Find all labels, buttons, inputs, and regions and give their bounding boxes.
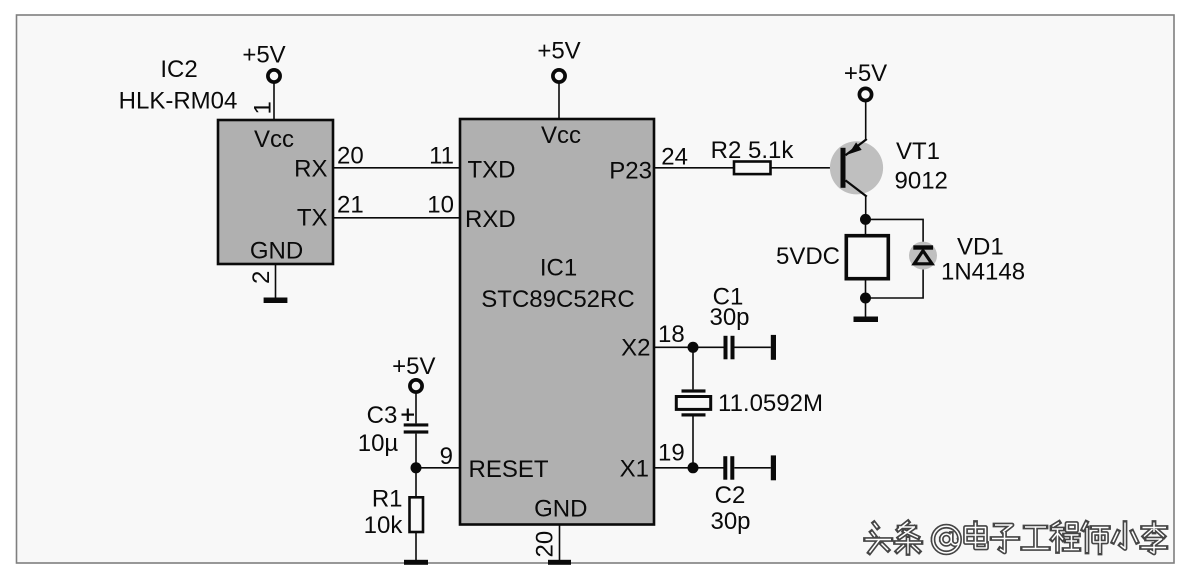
wire +5V to C3 [415,393,417,424]
svg-text:11: 11 [429,143,454,170]
svg-text:21: 21 [337,192,364,219]
svg-text:X2: X2 [621,335,650,362]
wire junction to RESET pin [416,467,460,469]
svg-text:+5V: +5V [242,42,285,69]
svg-text:C2: C2 [715,482,746,509]
wire +5V to IC1 Vcc [558,83,560,119]
wire IC2 RX to IC1 TXD [333,167,460,169]
+5V terminal circle (IC2) [268,70,280,82]
wire junction to ground [865,298,867,317]
transistor VT1 circle [830,141,883,194]
svg-text:19: 19 [658,440,685,467]
watermark 头条 @电子工程师小李 [866,522,1167,554]
svg-text:RESET: RESET [469,456,549,483]
svg-text:IC1: IC1 [540,255,577,282]
svg-text:20: 20 [532,531,559,558]
wire +5V to IC2 Vcc [273,83,275,120]
VT1 base bar [841,148,846,188]
svg-text:HLK-RM04: HLK-RM04 [119,88,238,115]
wire IC2 TX to IC1 RXD [333,217,460,219]
svg-text:+5V: +5V [844,60,887,87]
wire +5V to VT1 emitter [865,101,867,140]
svg-text:GND: GND [534,496,587,523]
svg-text:R1: R1 [372,486,403,513]
svg-text:9: 9 [440,443,453,470]
ground terminal bar (C2) [771,455,776,480]
svg-text:30p: 30p [710,508,750,535]
ground bar (IC1 GND) [548,560,571,565]
wire VT1 collector down [865,196,867,220]
svg-text:STC89C52RC: STC89C52RC [481,286,634,313]
wire X2 to C1 [654,346,724,348]
wire R2 to VT1 base [771,167,842,169]
svg-text:1N4148: 1N4148 [941,259,1025,286]
VT1 emitter line [846,139,867,155]
node X2 junction [688,342,699,353]
svg-text:P23: P23 [609,158,652,185]
svg-text:IC2: IC2 [160,56,197,83]
svg-text:Vcc: Vcc [541,122,581,149]
+5V terminal circle (IC1) [553,70,565,82]
VD1 cathode bar [913,245,933,249]
node reset junction [411,462,422,473]
node buzzer top junction [860,214,871,225]
wire buzzer to bottom junction [865,279,867,298]
IC1 STC89C52RC body [460,119,654,525]
crystal Q1 bottom plate [682,413,706,416]
ground bar (R1) [404,560,428,565]
capacitor C2 plates [723,456,727,480]
svg-text:10: 10 [427,192,454,219]
svg-text:VD1: VD1 [957,234,1004,261]
wire X2 junction to crystal [692,347,694,389]
node buzzer bottom junction [860,293,871,304]
svg-text:9012: 9012 [895,168,948,195]
wire X1 to C2 [654,467,724,469]
svg-text:+5V: +5V [392,353,435,380]
C3 polarity plus sign [402,414,415,416]
crystal Q1 top plate [682,389,706,392]
svg-text:10k: 10k [364,512,404,539]
buzzer 5VDC body [846,236,888,279]
wire top junction to diode branch [866,219,924,247]
wire C3 to reset junction [415,434,417,468]
resistor R1 body [410,497,424,532]
ground bar (IC2) [264,298,288,304]
svg-text:20: 20 [337,143,364,170]
wire junction to buzzer [865,219,867,235]
svg-text:VT1: VT1 [896,138,940,165]
+5V terminal circle (reset) [410,380,422,392]
svg-text:10µ: 10µ [358,430,399,457]
svg-text:C3: C3 [367,402,398,429]
node X1 junction [688,462,699,473]
capacitor C1 plates [724,336,728,360]
svg-text:1: 1 [250,101,277,114]
wire P23 to R2 [654,167,734,169]
svg-text:RXD: RXD [465,206,516,233]
svg-text:+5V: +5V [537,38,580,65]
VT1 collector line [846,180,867,196]
resistor R2 body [734,162,771,175]
svg-text:Vcc: Vcc [254,126,294,153]
IC2 HLK-RM04 module body [218,120,333,264]
wire IC2 GND pin down [275,264,277,300]
wire crystal to X1 junction [692,417,694,468]
svg-text:11.0592M: 11.0592M [718,390,823,417]
svg-text:TX: TX [297,205,328,232]
wire IC1 GND pin down [559,525,561,561]
wire C1 to ground bar [735,346,771,348]
svg-text:X1: X1 [620,456,649,483]
VT1 emitter arrow (PNP) [849,142,862,154]
ground terminal bar (C1) [771,335,776,360]
diode VD1 circle [909,242,937,270]
svg-text:24: 24 [661,144,688,171]
VD1 triangle [914,251,932,264]
+5V terminal circle (VT1) [859,88,871,100]
wire R1 to ground [415,532,417,561]
wire junction to R1 [415,468,417,498]
wire C2 to ground bar [734,467,771,469]
svg-text:TXD: TXD [468,157,516,184]
svg-text:5VDC: 5VDC [776,243,840,270]
svg-text:2: 2 [248,271,275,284]
capacitor C3 plates [404,423,429,426]
svg-text:R2 5.1k: R2 5.1k [711,137,795,164]
svg-text:RX: RX [294,156,327,183]
crystal Q1 body [676,397,710,410]
svg-text:18: 18 [658,321,685,348]
ground bar (buzzer) [854,317,879,323]
wire diode bottom branch [866,264,924,298]
svg-text:GND: GND [250,238,303,265]
svg-text:30p: 30p [709,304,749,331]
